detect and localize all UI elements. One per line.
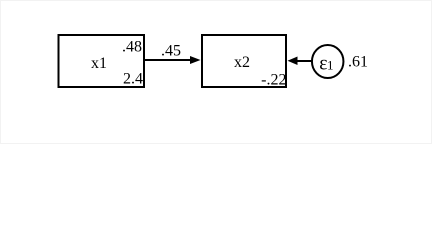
svg-text:-.22: -.22 bbox=[261, 72, 286, 89]
svg-text:.48: .48 bbox=[122, 39, 142, 56]
box x1 bbox=[59, 35, 145, 87]
arrowhead into x2 from epsilon1 bbox=[288, 57, 298, 66]
svg-text:2.4: 2.4 bbox=[123, 71, 143, 88]
svg-text:.45: .45 bbox=[161, 43, 181, 60]
svg-text:x1: x1 bbox=[91, 55, 107, 72]
svg-text:x2: x2 bbox=[234, 54, 250, 71]
wire: error arrow shaft epsilon1 to x2 bbox=[296, 60, 312, 62]
wire: path arrow shaft x1 to x2 bbox=[145, 59, 191, 61]
svg-text:1: 1 bbox=[327, 58, 334, 73]
box x2 bbox=[202, 35, 286, 87]
svg-text:.61: .61 bbox=[348, 54, 368, 71]
arrowhead into x2 bbox=[190, 56, 201, 64]
circle epsilon1 (error term) bbox=[312, 45, 344, 78]
